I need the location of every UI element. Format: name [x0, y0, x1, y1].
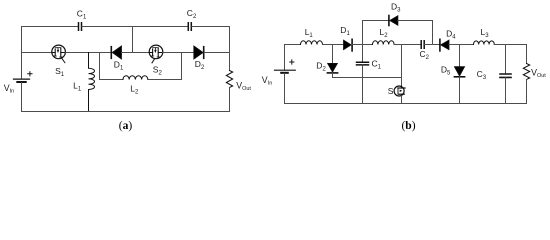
wire: L2 left riser	[100, 53, 124, 80]
wire: D3 bypass left riser	[363, 21, 389, 45]
wire: left edge lower	[21, 83, 23, 112]
svg-text:C1: C1	[372, 58, 382, 70]
diode D1b	[344, 39, 353, 51]
wire: main rail b seg6	[449, 44, 474, 46]
switch S b	[394, 86, 405, 96]
resistor Vout	[226, 71, 232, 88]
capacitor C3	[500, 74, 511, 77]
wire: main rail b seg4	[394, 44, 420, 46]
wire: top rail left segment	[22, 26, 79, 28]
svg-text:C3: C3	[477, 69, 487, 81]
svg-text:VIn: VIn	[262, 75, 272, 86]
svg-text:D3: D3	[391, 2, 401, 14]
svg-text:S1: S1	[55, 66, 65, 78]
diode D2b	[327, 63, 337, 73]
battery Vin	[14, 79, 30, 82]
wire: left edge b upper	[284, 45, 286, 70]
svg-text:(a): (a)	[119, 120, 133, 132]
wire: S branch lower	[401, 96, 403, 104]
diode D2	[194, 46, 204, 59]
svg-text:L1: L1	[305, 27, 314, 39]
wire: L2 right riser	[148, 53, 182, 80]
wire: main rail seg3	[122, 52, 150, 54]
wire: right edge lower	[229, 88, 231, 112]
inductor L2	[123, 76, 148, 80]
plus sign b	[290, 60, 294, 64]
wire: main rail b seg1	[285, 44, 301, 46]
wire: C1 branch upper	[362, 45, 364, 63]
svg-text:D5: D5	[441, 65, 451, 77]
resistor Vout b	[523, 64, 529, 80]
diode D3	[389, 16, 398, 26]
svg-text:VOut: VOut	[236, 81, 251, 92]
wire: D5 branch lower	[459, 77, 461, 104]
svg-text:(b): (b)	[401, 120, 415, 132]
wire: bottom rail b	[285, 103, 527, 105]
capacitor C2	[188, 23, 191, 30]
wire: left edge upper	[21, 27, 23, 79]
wire: D3 bypass right riser	[398, 21, 433, 45]
wire: C3 branch upper	[505, 45, 507, 74]
diode D1	[111, 46, 121, 59]
wire: main rail b seg3	[352, 44, 372, 46]
wire: right edge upper	[229, 27, 231, 71]
wire: C1 branch lower	[362, 65, 364, 104]
plus sign a	[28, 72, 32, 76]
wire: D2 branch upper	[332, 45, 334, 64]
wire: main rail seg2	[65, 52, 111, 54]
svg-text:VIn: VIn	[4, 83, 14, 94]
capacitor C1	[79, 23, 82, 30]
svg-text:D4: D4	[446, 29, 456, 41]
wire: main rail seg1	[22, 52, 52, 54]
battery Vin b	[275, 70, 296, 73]
svg-text:D1: D1	[340, 25, 350, 37]
svg-text:L2: L2	[130, 84, 139, 96]
capacitor C1b	[357, 62, 369, 65]
wire: right edge b lower	[526, 80, 528, 104]
switch S1	[52, 45, 66, 63]
svg-text:D2: D2	[195, 59, 205, 71]
wire: left edge b lower	[284, 73, 286, 103]
diode D5	[454, 67, 464, 77]
svg-text:L2: L2	[380, 27, 389, 39]
wire: main rail b seg5	[425, 44, 440, 46]
svg-text:S2: S2	[153, 65, 163, 77]
svg-text:C2: C2	[187, 8, 197, 20]
wire: S branch upper	[401, 45, 403, 87]
svg-text:C2: C2	[420, 49, 430, 61]
switch S2	[149, 45, 163, 63]
wire: main rail seg5	[204, 52, 229, 54]
inductor L3	[474, 41, 495, 45]
svg-text:L1: L1	[73, 80, 82, 92]
wire: bottom rail	[22, 111, 230, 113]
inductor L1	[89, 53, 95, 112]
svg-text:S: S	[388, 86, 394, 96]
wire: main rail b seg7	[494, 44, 526, 46]
wire: top rail right segment	[192, 26, 230, 28]
wire: top rail middle segment	[82, 26, 188, 28]
inductor L2b	[373, 41, 395, 45]
svg-text:VOut: VOut	[531, 68, 546, 79]
svg-text:L3: L3	[481, 27, 490, 39]
wire: C3 branch lower	[505, 77, 507, 103]
wire: right edge b upper	[526, 45, 528, 64]
wire: node rail	[333, 77, 402, 79]
wire: D2 branch to node	[332, 73, 334, 78]
wire: D5 branch upper	[459, 45, 461, 67]
inductor L1b	[301, 41, 323, 45]
capacitor C2b	[421, 41, 424, 48]
wire: main rail seg4	[163, 52, 194, 54]
wire: main rail b seg2	[323, 44, 344, 46]
svg-text:C1: C1	[77, 8, 87, 20]
diode D4	[440, 39, 449, 51]
wire: riser to top rail	[132, 27, 134, 53]
svg-text:D1: D1	[114, 60, 124, 72]
svg-text:D2: D2	[316, 61, 326, 73]
